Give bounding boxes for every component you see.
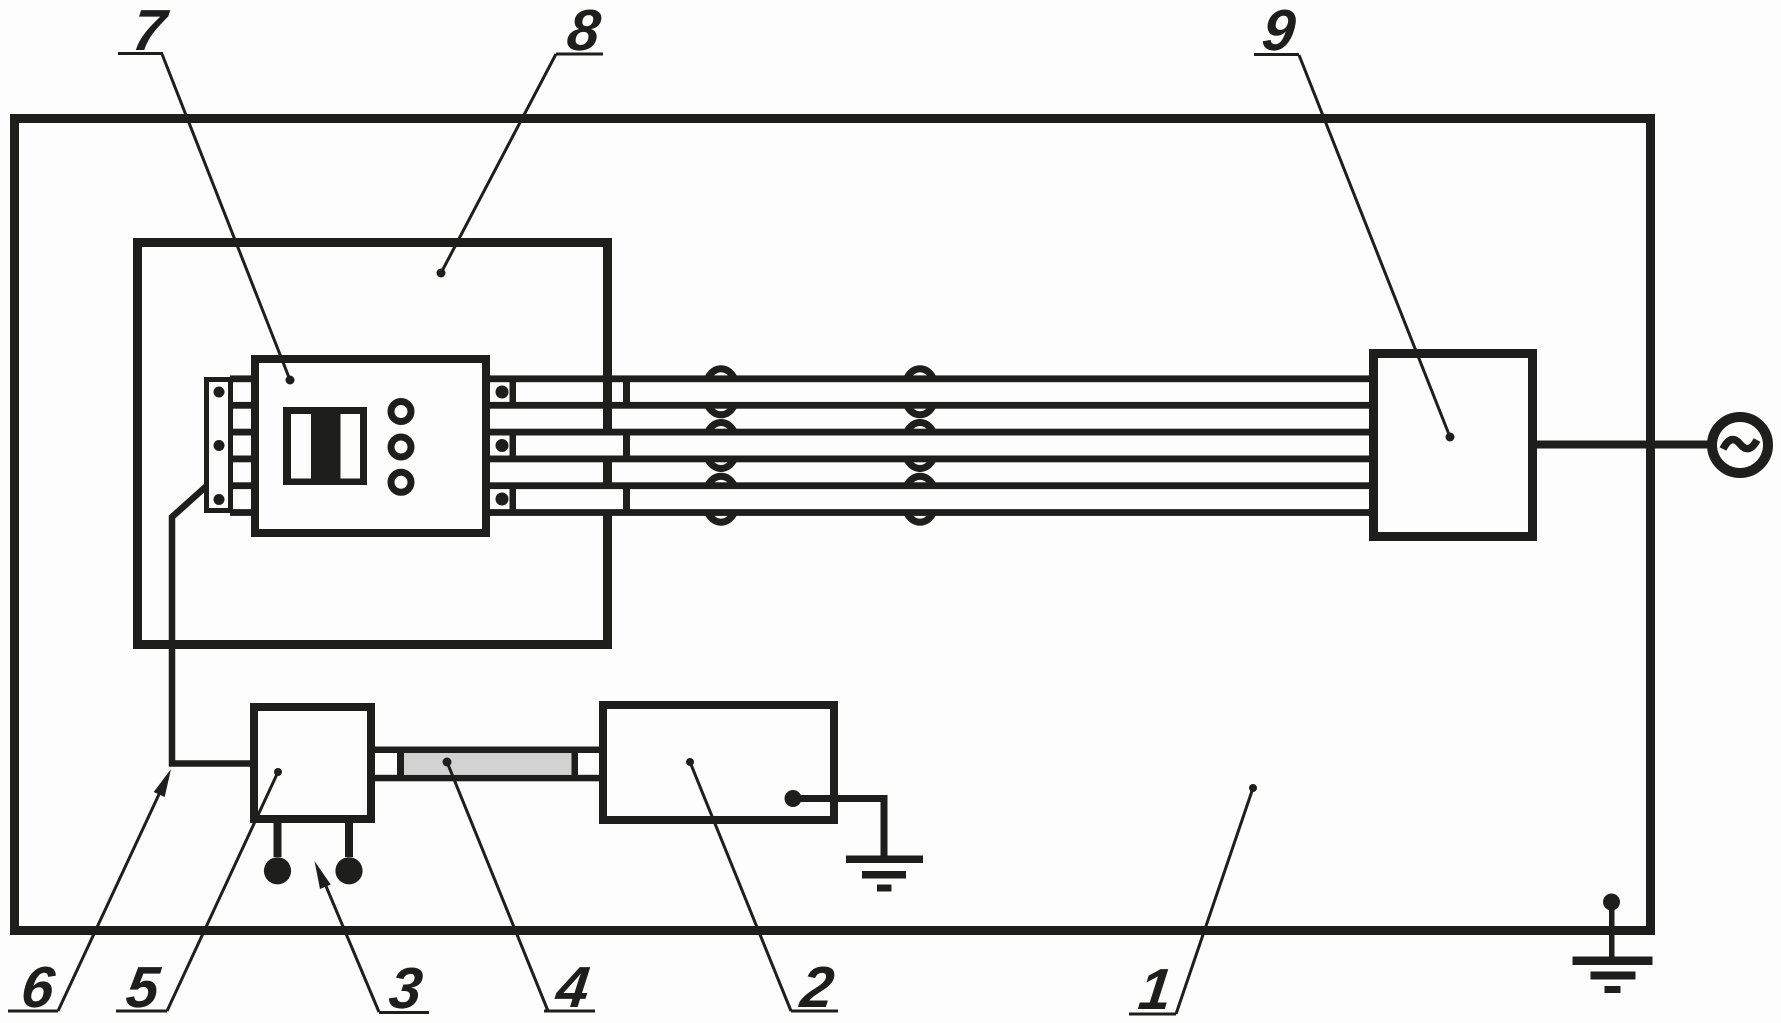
leader line 4	[447, 762, 548, 1011]
tube 1 interior	[490, 382, 1373, 403]
tube line 2	[230, 402, 1373, 409]
connector strip	[207, 380, 231, 511]
heater bar 4 left divider	[397, 753, 404, 775]
leader line 8	[441, 54, 556, 273]
tube 3 dividers	[510, 489, 517, 510]
enclosure ground symbol	[1573, 957, 1653, 966]
enclosure ground node dot	[1603, 894, 1620, 911]
leader line 6 with arrow	[58, 790, 161, 1011]
heater bar 4 gray core	[404, 753, 572, 775]
tube 1 dividers	[510, 382, 517, 403]
tube line 3	[230, 429, 1373, 436]
enclosure 1 (outer case)	[15, 119, 1651, 931]
label underline 9	[1254, 53, 1299, 56]
block 5	[254, 707, 371, 819]
tube 2 dividers	[510, 435, 517, 456]
enclosure ground stem	[1609, 902, 1615, 957]
label underline 6	[8, 1010, 58, 1013]
power block 9	[1374, 354, 1533, 537]
probe 3a	[264, 857, 291, 884]
label underline 5	[116, 1010, 167, 1013]
indicator circle 3	[391, 472, 411, 492]
block 2 ground node dot	[785, 790, 802, 807]
label underline 8	[556, 53, 603, 56]
leader line 2	[690, 762, 791, 1011]
probe leg 1	[274, 823, 282, 857]
label underline 1	[1129, 1013, 1176, 1016]
ground symbol of block 2	[846, 856, 923, 864]
tube line 5	[230, 482, 1373, 489]
probe leg 2	[345, 823, 353, 857]
tube 2 interior	[490, 435, 1373, 456]
coil ring pair on tube 2	[705, 423, 738, 469]
label underline 4	[544, 1010, 595, 1013]
heater bar 4 bottom line	[371, 775, 607, 782]
heater bar 4 top line	[371, 747, 607, 754]
chamber 8 (inner box)	[138, 243, 608, 645]
tube contact dot 3	[496, 493, 509, 506]
ground wire vertical	[881, 795, 888, 859]
strip dot 1	[214, 387, 225, 398]
leader line 1	[1176, 788, 1253, 1014]
leader line 7	[162, 54, 290, 380]
tube line 1	[230, 375, 1373, 382]
leader line 5	[167, 772, 278, 1011]
control unit 7	[255, 359, 486, 533]
tube line 4	[230, 456, 1373, 463]
tube contact dot 1	[496, 386, 509, 399]
ground wire horizontal	[793, 795, 888, 802]
label underline 2	[791, 1010, 838, 1013]
display window frame	[283, 407, 367, 485]
strip dot 3	[214, 494, 225, 505]
strip dot 2	[214, 440, 225, 451]
leader line 9	[1299, 55, 1450, 437]
wire to AC source	[1533, 441, 1712, 449]
display window left cell	[291, 414, 311, 479]
indicator circle 1	[391, 402, 411, 422]
heater bar 4 right divider	[572, 753, 579, 775]
block 2	[603, 705, 834, 820]
label underline 3	[379, 1011, 429, 1014]
indicator circle 2	[391, 437, 411, 457]
label underline 7	[118, 52, 163, 55]
tube line 6	[230, 509, 1373, 516]
leader line 3 with arrow	[323, 879, 379, 1012]
probe 3b	[335, 857, 362, 884]
display window right cell	[341, 414, 361, 479]
chamber 8 wall segment crossing tube 1	[603, 382, 612, 403]
tube 3 interior	[490, 489, 1373, 510]
coil ring pair on tube 3	[705, 476, 738, 522]
wire 6 (from strip to block 5)	[172, 487, 251, 764]
coil ring pair on tube 1	[705, 369, 738, 415]
AC source symbol	[1712, 417, 1768, 473]
tube contact dot 2	[496, 439, 509, 452]
